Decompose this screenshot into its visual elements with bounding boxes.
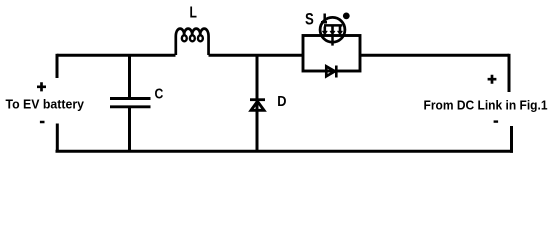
wire capacitor branch bottom lead <box>128 108 131 152</box>
MOSFET drain dot <box>343 13 350 20</box>
minus sign left <box>40 121 45 124</box>
wire left vertical upper segment <box>56 54 59 78</box>
plus sign right <box>488 75 497 84</box>
diode D triangle <box>251 101 264 110</box>
wire top middle segment (inductor to switch box) <box>209 54 304 57</box>
antiparallel diode cathode bar <box>335 66 338 78</box>
MOSFET channel stubs with arrows <box>322 27 343 36</box>
plus sign left <box>37 82 46 91</box>
wire diode D branch <box>256 55 259 151</box>
svg-text:S: S <box>305 10 314 28</box>
svg-text:L: L <box>190 5 198 22</box>
MOSFET gate bar <box>324 24 342 27</box>
inductor L <box>176 29 209 55</box>
wire bottom <box>56 150 514 153</box>
wire left vertical lower segment <box>56 124 59 152</box>
svg-text:C: C <box>155 86 164 103</box>
MOSFET source stub below <box>331 36 334 46</box>
svg-text:To EV battery: To EV battery <box>6 98 85 112</box>
MOSFET gate lead <box>321 14 327 24</box>
capacitor C plates <box>110 99 151 107</box>
minus sign right <box>494 120 499 122</box>
switch box rectangle <box>303 36 360 72</box>
antiparallel diode in box: triangle <box>326 66 335 76</box>
wire top right segment (box to right corner) <box>360 54 509 57</box>
wire top left segment <box>57 54 176 57</box>
svg-text:D: D <box>277 93 286 110</box>
wire right vertical lower segment <box>510 126 513 153</box>
wire capacitor branch top lead <box>128 55 131 98</box>
diode D cathode bar <box>250 98 265 101</box>
MOSFET S circle <box>320 17 345 42</box>
wire right vertical upper segment <box>508 54 511 92</box>
svg-text:From DC Link in Fig.1: From DC Link in Fig.1 <box>424 98 548 113</box>
